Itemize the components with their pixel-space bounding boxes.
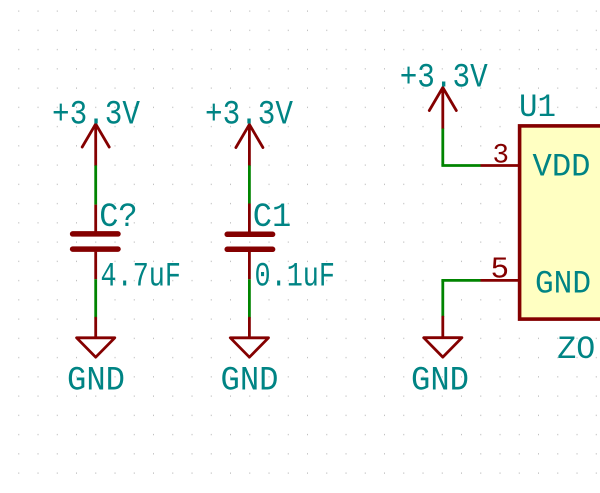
IC U1 body — [520, 126, 600, 319]
ground symbol (U1) — [424, 317, 462, 357]
svg-text:GND: GND — [535, 266, 591, 303]
svg-text:GND: GND — [67, 362, 125, 400]
pin 5 (GND) — [481, 279, 520, 282]
wire (C? bottom pin to GND) — [94, 279, 97, 318]
svg-text:5: 5 — [491, 253, 510, 288]
capacitor C1 — [227, 204, 272, 280]
svg-text:C?: C? — [99, 199, 138, 237]
pin 3 (VDD) — [481, 164, 520, 167]
reference U1 — [519, 89, 556, 126]
wire (to U1 pin 3) — [441, 164, 480, 167]
power +3.3V symbol (U1 VDD) — [429, 88, 456, 129]
value ZO (clipped at canvas edge) — [557, 331, 595, 368]
wire (down to ground symbol) — [441, 280, 444, 317]
svg-text:VDD: VDD — [533, 148, 591, 185]
svg-text:U1: U1 — [519, 89, 556, 126]
reference C1 — [253, 199, 291, 237]
svg-text:3: 3 — [493, 140, 510, 171]
wire (power to C? top pin) — [94, 165, 97, 204]
svg-text:0.1uF: 0.1uF — [255, 258, 336, 296]
wire (power down to VDD pin level) — [441, 129, 444, 166]
label GND (cap C? column) — [67, 362, 125, 400]
reference C? — [99, 199, 138, 237]
pin name GND — [535, 266, 591, 303]
svg-text:+3.3V: +3.3V — [52, 97, 141, 135]
svg-text:GND: GND — [411, 362, 469, 400]
label +3.3V (U1 VDD) — [400, 60, 489, 98]
label GND (U1) — [411, 362, 469, 400]
ground symbol (cap C? column) — [77, 318, 115, 357]
label +3.3V (cap C1 column) — [205, 97, 294, 135]
value 0.1uF — [255, 258, 336, 296]
ground symbol (cap C1 column) — [230, 318, 268, 357]
pin number 3 — [493, 140, 510, 171]
capacitor C? — [73, 205, 118, 280]
wire (power to C1 top pin) — [248, 165, 251, 203]
svg-text:+3.3V: +3.3V — [205, 97, 294, 135]
svg-text:+3.3V: +3.3V — [400, 60, 489, 98]
wire (U1 pin 5 to GND) — [441, 279, 480, 282]
label GND (cap C1 column) — [221, 362, 279, 400]
svg-text:ZO: ZO — [557, 331, 595, 368]
value 4.7uF — [101, 258, 182, 296]
svg-text:C1: C1 — [253, 199, 291, 237]
power +3.3V symbol (cap C? column) — [82, 124, 109, 165]
svg-text:GND: GND — [221, 362, 279, 400]
label +3.3V (cap C? column) — [52, 97, 141, 135]
wire (C1 bottom pin to GND) — [248, 279, 251, 318]
pin number 5 — [491, 253, 510, 288]
power +3.3V symbol (cap C1 column) — [236, 125, 263, 166]
pin name VDD — [533, 148, 591, 185]
svg-text:4.7uF: 4.7uF — [101, 258, 182, 296]
